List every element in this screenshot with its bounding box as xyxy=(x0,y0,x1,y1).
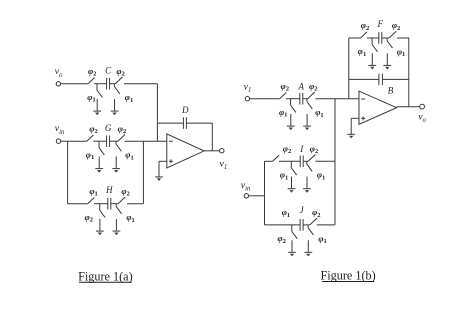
terminal v_in (fig a input) xyxy=(55,123,65,143)
switch A shunt-left (φ1) xyxy=(279,99,296,126)
capacitor C xyxy=(105,66,112,90)
terminal v_o (fig b output) xyxy=(418,104,426,124)
wire C branch exit xyxy=(124,83,157,85)
capacitor D (feedback) xyxy=(157,105,212,129)
capacitor H xyxy=(105,185,113,210)
wire D feedback down to output xyxy=(211,123,213,151)
wire op-amp b output xyxy=(397,106,420,108)
terminal v_1 (fig b input) xyxy=(244,81,252,101)
switch I shunt-right (φ1) xyxy=(307,161,326,188)
capacitor F xyxy=(377,19,384,44)
svg-text:D: D xyxy=(181,105,189,115)
op-amp U1 (fig a) xyxy=(167,134,204,168)
wire G to capacitor xyxy=(93,140,107,142)
wire I branch entry xyxy=(265,160,273,162)
ground (I shunt-right) xyxy=(303,189,311,193)
svg-text:Figure 1(a): Figure 1(a) xyxy=(78,269,133,283)
wire H cap to right switch xyxy=(111,203,118,205)
switch I left (φ2) xyxy=(273,143,292,161)
terminal v_1 (fig a output) xyxy=(220,149,228,171)
terminal v_o (fig a input) xyxy=(55,66,63,86)
wire C cap to right switch xyxy=(110,83,116,85)
wire I cap to right switch xyxy=(303,160,308,162)
switch H left (φ1) xyxy=(88,186,98,204)
wire C branch entry xyxy=(61,83,88,85)
ground (F shunt-left) xyxy=(368,65,376,69)
svg-text:B: B xyxy=(388,86,394,96)
wire v_in to split node xyxy=(249,195,265,197)
wire H branch entry xyxy=(68,203,88,205)
switch H shunt-right (φ1) xyxy=(116,204,135,231)
capacitor G xyxy=(105,123,112,147)
switch I right (φ2) xyxy=(308,143,318,161)
ground (H shunt-right) xyxy=(113,231,121,235)
switch C right (φ2) xyxy=(115,66,125,84)
switch J right (φ2) xyxy=(310,207,321,225)
ground (F shunt-right) xyxy=(383,65,391,69)
wire H to capacitor xyxy=(94,203,108,205)
wire C to capacitor xyxy=(94,83,106,85)
wire H branch up to summing node xyxy=(142,141,144,204)
switch C shunt-right (φ1) xyxy=(114,84,133,111)
switch G right (φ2) xyxy=(118,123,126,141)
wire I branch exit xyxy=(316,160,336,162)
switch A shunt-right (φ1) xyxy=(307,99,324,126)
wire G cap to right switch xyxy=(110,140,118,142)
ground (I shunt-left) xyxy=(288,189,296,193)
wire A branch entry xyxy=(250,98,280,100)
wire A cap to right switch xyxy=(303,98,308,100)
switch H right (φ2) xyxy=(118,186,130,204)
svg-text:C: C xyxy=(105,66,112,76)
wire C branch down to summing node xyxy=(156,84,158,142)
wire J branch exit xyxy=(317,224,335,226)
wire op-amp a output xyxy=(204,150,220,152)
wire I to capacitor xyxy=(279,160,300,162)
ground (C shunt-left) xyxy=(93,111,101,115)
ground (op-amp b plus input) xyxy=(347,134,355,138)
switch G left (φ2) xyxy=(87,123,98,141)
terminal v_in (fig b input) xyxy=(241,180,251,198)
switch C shunt-left (φ1) xyxy=(87,84,102,111)
ground (J shunt-right) xyxy=(304,252,312,256)
capacitor A xyxy=(298,82,305,105)
svg-text:Figure 1(b): Figure 1(b) xyxy=(321,269,376,283)
switch C left (φ2) xyxy=(88,66,96,84)
wire J cap to right switch xyxy=(303,224,310,226)
switch A left (φ2) xyxy=(280,81,289,99)
svg-text:F: F xyxy=(377,19,384,29)
svg-text:H: H xyxy=(105,185,113,195)
wire split node up to I branch xyxy=(264,161,266,196)
wire F to capacitor xyxy=(367,37,379,39)
switch A right (φ2) xyxy=(308,81,318,99)
wire A branch exit xyxy=(315,98,359,100)
op-amp U2 (fig b) xyxy=(359,91,397,124)
capacitor I xyxy=(299,144,304,167)
wire G branch exit xyxy=(125,140,167,142)
wire J branch entry xyxy=(265,224,301,226)
wire F branch right down to output xyxy=(408,38,410,107)
wire A to capacitor xyxy=(286,98,300,100)
switch I shunt-left (φ1) xyxy=(280,161,297,188)
wire H branch exit xyxy=(127,203,143,205)
switch F left (φ2) xyxy=(361,20,370,38)
wire F branch entry xyxy=(349,37,361,39)
ground (C shunt-right) xyxy=(111,111,119,115)
ground (A shunt-right) xyxy=(303,126,311,130)
wire split node down to J branch xyxy=(264,196,266,225)
switch H shunt-left (φ2) xyxy=(85,204,106,231)
wire G branch entry xyxy=(61,140,87,142)
ground (op-amp a plus input) xyxy=(155,177,163,181)
switch F shunt-left (φ1) xyxy=(358,38,378,65)
ground (G shunt-left) xyxy=(95,169,103,173)
caption Figure 1(a) xyxy=(78,269,133,283)
switch F right (φ2) xyxy=(389,20,400,38)
ground (G shunt-right) xyxy=(112,169,120,173)
label φ1 (J left phase) xyxy=(282,207,290,219)
wire v_in tee down to H branch xyxy=(67,141,69,204)
wire F branch left down to summing node xyxy=(348,38,350,99)
wire summing node down to I and J branches xyxy=(334,99,336,225)
ground (H shunt-left) xyxy=(96,231,104,235)
wire F branch exit xyxy=(397,37,409,39)
switch F shunt-right (φ1) xyxy=(387,38,405,65)
capacitor B (feedback) xyxy=(349,74,409,96)
switch G shunt-right (φ1) xyxy=(116,141,134,168)
svg-text:G: G xyxy=(105,123,112,133)
wire op-amp plus input to ground xyxy=(159,161,167,176)
ground (A shunt-left) xyxy=(287,126,295,130)
switch G shunt-left (φ1) xyxy=(86,141,105,168)
caption Figure 1(b) xyxy=(321,269,376,283)
svg-text:A: A xyxy=(298,82,305,92)
switch J shunt-right (φ1) xyxy=(308,225,327,252)
wire F cap to right switch xyxy=(382,37,389,39)
capacitor J xyxy=(300,205,305,231)
ground (J shunt-left) xyxy=(288,252,296,256)
switch J shunt-left (φ2) xyxy=(277,225,297,252)
wire op-amp b plus input to ground xyxy=(351,118,359,134)
